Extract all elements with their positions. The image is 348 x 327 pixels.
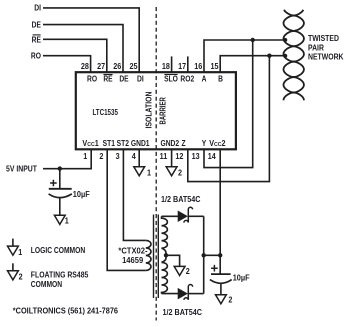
svg-text:LTC1535: LTC1535 [92, 108, 118, 117]
capacitor C1 value 10uF text [73, 190, 90, 199]
svg-text:11: 11 [160, 152, 168, 161]
svg-text:5V INPUT: 5V INPUT [6, 164, 37, 174]
wire A: pin 16 up to twisted pair [204, 40, 285, 72]
svg-text:26: 26 [113, 61, 121, 70]
pin 26 label DE [119, 74, 128, 84]
pin 11 label GND2 [160, 138, 179, 148]
svg-text:Z: Z [182, 138, 187, 148]
wire secondary top to diode D1 [162, 215, 179, 217]
wire rectifier output bus [203, 216, 205, 293]
isolation barrier label ISOLATION [144, 92, 154, 129]
svg-text:VCC2: VCC2 [209, 139, 225, 148]
ground 1 label at C1 [65, 216, 70, 225]
pin 1 label VCC1 [82, 139, 99, 148]
wire DE [43, 25, 123, 72]
svg-text:RO2: RO2 [180, 74, 194, 84]
pin 28 label RO [87, 74, 97, 84]
label D2 1/2 BAT54C [163, 308, 203, 317]
svg-text:18: 18 [162, 61, 170, 70]
ground triangle 1 below C1 [54, 215, 65, 224]
junction Z / B [267, 54, 271, 58]
node DE label [32, 20, 41, 30]
svg-text:TWISTED: TWISTED [308, 34, 339, 44]
SLO pin overline [164, 74, 177, 76]
legend ground 1 number [18, 248, 23, 257]
svg-text:14659: 14659 [122, 256, 144, 265]
wire secondary bottom to diode D2 [162, 293, 179, 295]
ground 2 label at C2 [228, 295, 232, 304]
svg-text:Y: Y [202, 138, 207, 148]
svg-text:27: 27 [97, 61, 105, 70]
junction B to twisted pair [283, 54, 287, 58]
transformer T1 secondary top half [162, 216, 168, 248]
ground stub pin 11 GND2 [171, 149, 173, 167]
svg-text:*CTX02-: *CTX02- [118, 246, 148, 255]
svg-text:LOGIC COMMON: LOGIC COMMON [31, 246, 85, 256]
label PAIR [308, 43, 324, 53]
svg-text:FLOATING RS485: FLOATING RS485 [31, 270, 89, 280]
diode D2 schottky cathode [184, 285, 193, 300]
pin 25 label DI [137, 74, 144, 84]
svg-text:1: 1 [83, 152, 88, 161]
capacitor C2 value 10uF [233, 273, 250, 282]
svg-text:*COILTRONICS (561) 241-7876: *COILTRONICS (561) 241-7876 [13, 306, 118, 315]
pin 4 number [132, 152, 137, 161]
wire DI [43, 8, 139, 72]
diode D2 triangle [178, 289, 187, 299]
ground triangle center tap [174, 266, 185, 275]
pin 16 label A [202, 74, 207, 84]
svg-text:2: 2 [99, 152, 103, 161]
pin 2 number [99, 152, 103, 161]
wire D2 cathode to bus [188, 293, 203, 295]
svg-text:14: 14 [208, 152, 217, 161]
svg-text:3: 3 [116, 152, 120, 161]
label NETWORK [308, 52, 344, 62]
label D1 1/2 BAT54C [161, 195, 201, 204]
svg-text:25: 25 [129, 61, 138, 70]
wire Y: pin 13 to A line [204, 40, 253, 168]
wire VCC2 pin 14 down to rectifier output [219, 149, 221, 275]
svg-text:GND1: GND1 [131, 138, 150, 148]
ground triangle pin 11 [166, 167, 177, 176]
pin 12 number [175, 152, 183, 161]
capacitor C2 plus sign [211, 265, 218, 272]
ground 2 label at pin 11 [178, 168, 182, 177]
diode D1 schottky cathode [184, 207, 193, 222]
isolation barrier label BARRIER [160, 97, 168, 124]
junction Y / A [251, 38, 255, 42]
svg-text:ST2: ST2 [117, 138, 129, 148]
svg-text:SLO: SLO [164, 74, 178, 84]
note COILTRONICS phone [13, 306, 118, 315]
pin 26 number [113, 61, 121, 70]
svg-text:12: 12 [175, 152, 183, 161]
wire 5V input to pin 1 [43, 149, 91, 169]
pin 15 label B [218, 74, 223, 84]
wire B: pin 15 up to twisted pair [220, 56, 285, 72]
capacitor C1 top plate [49, 188, 72, 190]
legend label FLOATING RS485 [31, 270, 89, 280]
pin 2 label ST1 [103, 138, 115, 148]
wire RE [43, 39, 107, 72]
pin 3 number [116, 152, 120, 161]
svg-text:RO: RO [87, 74, 97, 84]
twisted pair strand 2 [284, 10, 304, 101]
pin 13 label Y [202, 138, 207, 148]
svg-text:DI: DI [34, 3, 41, 13]
svg-text:DE: DE [32, 20, 41, 30]
pin 14 label VCC2 [209, 139, 225, 148]
svg-text:1/2 BAT54C: 1/2 BAT54C [163, 308, 203, 317]
pin 27 number [97, 61, 105, 70]
pin 4 label GND1 [131, 138, 150, 148]
junction 5V / C1 [58, 166, 62, 170]
svg-text:16: 16 [194, 61, 202, 70]
svg-text:13: 13 [192, 152, 200, 161]
IC U1 LTC1535 body [76, 72, 236, 149]
ground 2 label at center tap [186, 267, 190, 276]
wire ST2 pin 3 to primary top [123, 149, 145, 241]
svg-text:VCC1: VCC1 [82, 139, 99, 148]
legend ground 2 stub [12, 263, 14, 271]
node RE label [32, 35, 41, 45]
wire C2 to ground [220, 284, 222, 295]
IC name LTC1535 [92, 108, 118, 117]
pin 18 number [162, 61, 170, 70]
legend ground 1 stub [12, 239, 14, 247]
wire C1 to ground [59, 198, 61, 215]
wire center tap to ground 2 [166, 255, 180, 266]
legend ground 2 number [19, 272, 23, 281]
pin 16 number [194, 61, 202, 70]
svg-text:RE: RE [103, 74, 112, 84]
pin 27 label RE [103, 74, 112, 84]
ground triangle below C2 [216, 295, 227, 304]
svg-text:1: 1 [18, 248, 23, 257]
svg-text:RO: RO [31, 51, 41, 61]
transformer T1 value CTX02 line 1 [118, 246, 148, 255]
diode D1 triangle [178, 211, 187, 221]
capacitor C1 curved plate [49, 194, 72, 198]
legend ground triangle 2 [8, 271, 19, 280]
transformer T1 value CTX02 line 2 [122, 256, 144, 265]
svg-text:1: 1 [65, 216, 70, 225]
junction bus tap [202, 253, 206, 257]
pin 18 stub [171, 56, 173, 72]
pin 1 number [83, 152, 88, 161]
transformer T1 secondary bottom half [162, 262, 168, 293]
pin 3 label ST2 [117, 138, 129, 148]
pin 17 number [178, 61, 186, 70]
ground triangle pin 4 [134, 167, 145, 176]
svg-text:2: 2 [178, 168, 182, 177]
svg-text:GND2: GND2 [160, 138, 179, 148]
transformer T1 secondary center tap [162, 248, 167, 262]
svg-text:ST1: ST1 [103, 138, 115, 148]
svg-text:DE: DE [119, 74, 128, 84]
svg-text:10µF: 10µF [233, 273, 250, 282]
pin 15 number [210, 61, 219, 70]
svg-text:4: 4 [132, 152, 137, 161]
svg-text:BARRIER: BARRIER [160, 97, 168, 124]
svg-text:B: B [218, 74, 223, 84]
junction C2 / VCC2 [218, 253, 222, 257]
node 5V INPUT label [6, 164, 37, 174]
svg-text:28: 28 [81, 61, 89, 70]
svg-text:1/2 BAT54C: 1/2 BAT54C [161, 195, 201, 204]
RE pin overline [103, 74, 112, 76]
pin 17 stub [187, 56, 189, 72]
pin 18 label SLO [164, 74, 178, 84]
pin 14 number [208, 152, 217, 161]
svg-text:10µF: 10µF [73, 190, 90, 199]
legend ground triangle 1 [8, 246, 19, 255]
ground 1 label at pin 4 [147, 168, 152, 177]
wire RO [43, 56, 91, 72]
svg-text:2: 2 [19, 272, 23, 281]
ground stub pin 4 GND1 [138, 149, 140, 167]
svg-text:COMMON: COMMON [31, 280, 62, 290]
pin 25 number [129, 61, 138, 70]
label TWISTED [308, 34, 339, 44]
legend label COMMON [31, 280, 62, 290]
capacitor C2 top plate [211, 273, 231, 275]
pin 17 label RO2 [180, 74, 194, 84]
transformer T1 primary winding [146, 240, 151, 270]
svg-text:1: 1 [147, 168, 152, 177]
svg-text:15: 15 [210, 61, 219, 70]
capacitor C1 plus sign [50, 180, 57, 187]
pin 28 number [81, 61, 89, 70]
svg-text:2: 2 [186, 267, 190, 276]
wire bus to C2 node [204, 254, 221, 256]
isolation barrier dashed line [155, 7, 157, 321]
pin 11 number [160, 152, 168, 161]
pin 12 label Z [182, 138, 187, 148]
junction A to twisted pair [283, 38, 287, 42]
svg-text:DI: DI [137, 74, 144, 84]
svg-text:2: 2 [228, 295, 232, 304]
node RO label [31, 51, 41, 61]
svg-text:PAIR: PAIR [308, 43, 324, 53]
pin 13 number [192, 152, 200, 161]
wire ST1 pin 2 to primary bottom [107, 149, 146, 271]
capacitor C2 curved plate [210, 280, 232, 284]
node DI label [34, 3, 41, 13]
svg-text:RE: RE [32, 35, 41, 45]
svg-text:17: 17 [178, 61, 186, 70]
legend label LOGIC COMMON [31, 246, 85, 256]
wire Z: pin 12 to B line [188, 56, 270, 182]
capacitor C1 lead [59, 169, 61, 188]
wire D1 cathode to bus [188, 215, 203, 217]
junction center tap [164, 253, 168, 257]
transformer T1 core [154, 215, 159, 299]
svg-text:ISOLATION: ISOLATION [144, 92, 154, 129]
svg-text:NETWORK: NETWORK [308, 52, 344, 62]
svg-text:A: A [202, 74, 207, 84]
twisted pair strand 1 [284, 10, 304, 101]
